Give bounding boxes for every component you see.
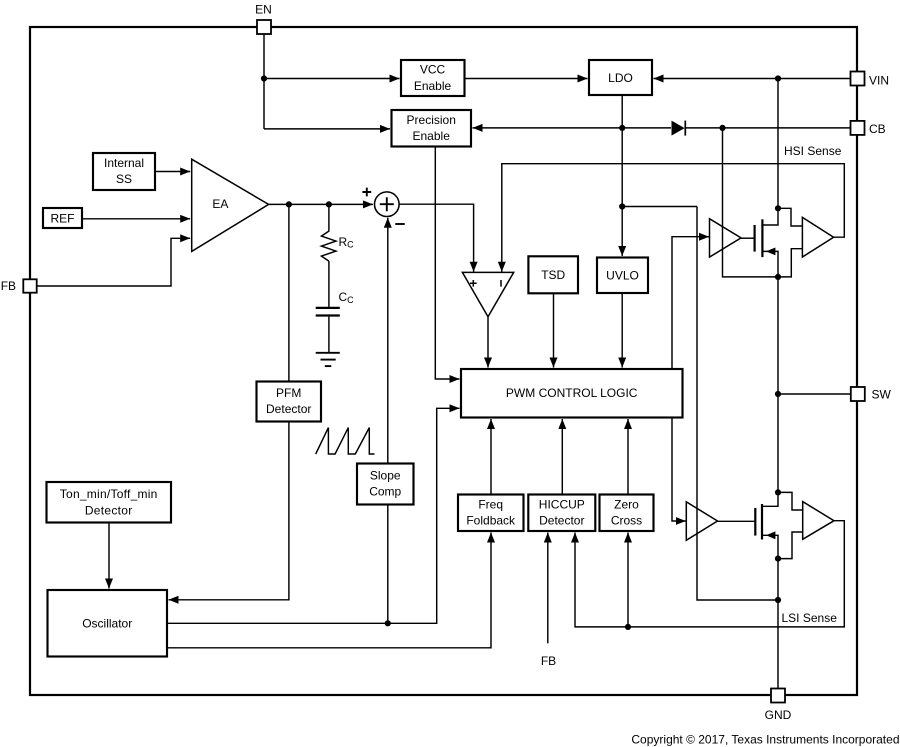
- diode D1: [672, 121, 686, 136]
- svg-text:Foldback: Foldback: [466, 513, 516, 527]
- wire EA output down to PFM Detector: [288, 204, 290, 381]
- box Slope Comp: [357, 464, 414, 505]
- wire Oscillator output to PWM logic: [167, 408, 459, 623]
- svg-text:HSI Sense: HSI Sense: [784, 144, 842, 158]
- box Ton_min/Toff_min Detector: [47, 482, 172, 523]
- wire LS sense amp top input: [778, 492, 803, 510]
- node EN branch junction: [261, 75, 267, 81]
- svg-text:REF: REF: [51, 211, 75, 225]
- svg-text:Oscillator: Oscillator: [82, 617, 132, 631]
- node EA output to PFM: [286, 201, 292, 207]
- wire Precision Enable output to PWM logic: [435, 147, 459, 380]
- pin SW: [851, 387, 892, 402]
- wire VCC rail through LS driver to GND: [697, 207, 778, 601]
- svg-text:Detector: Detector: [539, 513, 584, 527]
- wire Internal SS to EA: [155, 171, 190, 173]
- wire TSD output to PWM logic: [553, 293, 555, 367]
- svg-text:Internal: Internal: [104, 156, 144, 170]
- summing node: [362, 188, 404, 224]
- node LS source junction: [775, 556, 781, 562]
- wire LSI sense output to HICCUP Detector: [575, 521, 844, 627]
- box PFM Detector: [257, 382, 322, 422]
- svg-text:Detector: Detector: [85, 503, 133, 517]
- node slope comp branch: [385, 620, 391, 626]
- wire EN vertical drop: [263, 34, 265, 129]
- wire HICCUP Detector to PWM logic: [561, 419, 563, 495]
- node CB to HS driver rail: [719, 125, 725, 131]
- svg-text:UVLO: UVLO: [606, 269, 639, 283]
- node HS drain junction: [775, 205, 781, 211]
- box LDO: [589, 60, 652, 95]
- box Internal SS: [93, 153, 155, 190]
- wire RC to CC: [328, 261, 330, 307]
- node LDO output at CB row: [619, 125, 625, 131]
- svg-text:Comp: Comp: [369, 485, 401, 499]
- transistor LS FET: [718, 492, 779, 558]
- svg-text:Enable: Enable: [413, 129, 451, 143]
- wire PWM logic to HS gate driver: [672, 237, 709, 369]
- wire CB row from pin to diode: [685, 127, 851, 129]
- svg-text:Precision: Precision: [407, 113, 456, 127]
- svg-text:SW: SW: [872, 388, 892, 402]
- svg-text:Detector: Detector: [266, 402, 311, 416]
- box Precision Enable: [392, 110, 472, 147]
- wire UVLO output to PWM logic: [621, 293, 623, 367]
- node SW junction: [775, 391, 781, 397]
- wire REF to EA: [82, 218, 190, 220]
- svg-text:EA: EA: [212, 197, 228, 211]
- svg-text:TSD: TSD: [541, 268, 565, 282]
- wire summing node output to PWM comparator plus input: [399, 204, 474, 272]
- svg-text:Slope: Slope: [370, 469, 401, 483]
- wire VCC branch right: [622, 206, 697, 208]
- pin CB: [851, 121, 886, 136]
- transistor HS FET: [741, 208, 778, 277]
- wire LS sense amp bottom input: [778, 532, 803, 559]
- node HS source SW junction: [775, 274, 781, 280]
- amplifier LS current sense: [803, 502, 834, 540]
- wire Ton_min detector to Oscillator: [108, 523, 110, 589]
- wire CB rail through HS driver to SW: [723, 128, 779, 277]
- svg-text:Ton_min/Toff_min: Ton_min/Toff_min: [60, 487, 158, 501]
- node LS driver ground junction: [775, 597, 781, 603]
- svg-text:Cross: Cross: [611, 513, 642, 527]
- wire FB pin to EA: [36, 238, 190, 286]
- pin FB: [1, 279, 37, 293]
- box PWM CONTROL LOGIC: [461, 369, 683, 418]
- box Freq Foldback: [458, 495, 524, 532]
- node EA output to compensation: [326, 201, 332, 207]
- box TSD: [528, 256, 578, 293]
- wire EA output to summing node: [269, 203, 373, 205]
- resistor RC: [321, 204, 354, 261]
- wire Zero Cross to PWM logic: [627, 419, 629, 495]
- capacitor CC: [316, 290, 354, 315]
- svg-text:Copyright © 2017, Texas Instru: Copyright © 2017, Texas Instruments Inco…: [631, 733, 899, 747]
- svg-text:FB: FB: [1, 279, 16, 293]
- buffer LS gate driver: [686, 502, 717, 541]
- amplifier HS current sense: [802, 217, 833, 257]
- wire EN to VCC Enable: [264, 78, 400, 80]
- wire LS source rail to GND pin: [777, 559, 779, 689]
- box Oscillator: [48, 590, 168, 657]
- box VCC Enable: [401, 60, 465, 96]
- svg-text:VCC: VCC: [420, 62, 446, 76]
- wire comparator output to PWM logic: [487, 317, 489, 368]
- pin EN: [255, 3, 272, 35]
- svg-text:GND: GND: [765, 708, 792, 722]
- svg-text:Freq: Freq: [478, 497, 503, 511]
- wire LDO output down to UVLO: [621, 95, 623, 256]
- svg-text:Zero: Zero: [614, 497, 639, 511]
- wire CC to ground: [328, 317, 330, 353]
- node VIN rail junction: [775, 75, 781, 81]
- box Zero Cross: [600, 495, 654, 532]
- node LSI sense to Zero Cross: [625, 624, 631, 630]
- wire Oscillator output to Freq Foldback: [167, 533, 491, 648]
- box REF: [43, 208, 82, 228]
- wire LSI sense to Zero Cross: [627, 533, 629, 627]
- wire SW node to SW pin: [778, 393, 851, 395]
- wire Slope Comp output to summing node: [387, 218, 389, 464]
- wire Freq Foldback to PWM logic: [490, 419, 492, 495]
- svg-text:LDO: LDO: [608, 71, 633, 85]
- svg-text:FB: FB: [541, 654, 556, 668]
- svg-text:PFM: PFM: [276, 386, 301, 400]
- wire HSI sense output to comparator I input: [502, 164, 845, 272]
- node LS drain junction: [775, 489, 781, 495]
- svg-text:HICCUP: HICCUP: [539, 497, 585, 511]
- ground: [316, 353, 340, 366]
- sawtooth waveform: [316, 428, 375, 454]
- box UVLO: [597, 258, 648, 294]
- wire diode anode to Precision Enable: [473, 127, 672, 129]
- svg-text:Enable: Enable: [414, 79, 452, 93]
- wire PWM logic to LS gate driver: [672, 418, 686, 522]
- svg-text:SS: SS: [116, 172, 132, 186]
- svg-text:LSI Sense: LSI Sense: [782, 611, 838, 625]
- wire VIN to LDO: [654, 78, 851, 80]
- buffer HS gate driver: [710, 219, 742, 257]
- wire HS sense amp top input: [778, 208, 802, 226]
- node VCC branch to LS driver: [619, 203, 625, 209]
- wire HS sense amp bottom input: [778, 249, 802, 277]
- op-amp EA: [192, 159, 269, 251]
- pin VIN: [851, 72, 890, 88]
- wire SW rail between FETs: [777, 277, 779, 493]
- box HICCUP Detector: [528, 495, 595, 532]
- svg-text:PWM CONTROL LOGIC: PWM CONTROL LOGIC: [506, 386, 638, 400]
- wire EN to Precision Enable: [264, 128, 390, 130]
- svg-text:VIN: VIN: [869, 74, 889, 88]
- comparator PWM: [462, 272, 513, 316]
- svg-text:EN: EN: [255, 3, 272, 17]
- svg-text:CB: CB: [869, 122, 886, 136]
- wire slope comp input from oscillator line: [387, 505, 389, 624]
- wire PFM Detector down and left to Oscillator: [169, 422, 289, 600]
- pin GND: [765, 689, 792, 723]
- wire FB to HICCUP Detector: [547, 533, 549, 644]
- wire VIN rail down to HS drain: [777, 79, 779, 209]
- wire VCC Enable to LDO: [465, 78, 588, 80]
